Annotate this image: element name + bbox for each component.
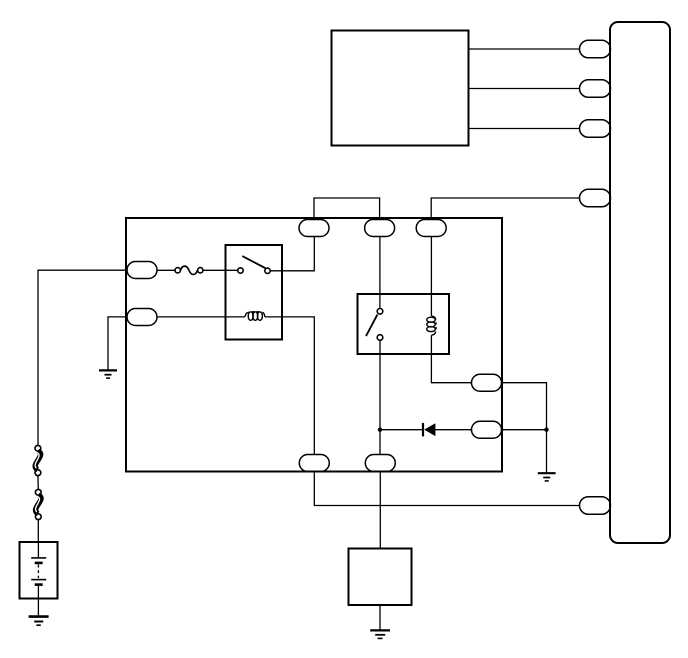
wire T1 down to relay 1 switch: [270, 237, 314, 271]
connector pin 2: [580, 80, 611, 98]
wire module to pin 2: [469, 88, 580, 90]
module box (top): [332, 31, 469, 146]
battery internals: [31, 542, 46, 616]
fuse terminal circle left: [175, 268, 180, 273]
terminal L2: [127, 309, 157, 326]
relay 1 coil: [245, 312, 265, 321]
wire bracket T1 to T2: [314, 198, 380, 220]
diode D1: [423, 423, 435, 437]
wire R1 to ground drop: [502, 383, 547, 473]
terminal T1: [299, 220, 329, 237]
relay 2 contact bottom: [377, 335, 383, 341]
wire L2 to relay 1 coil: [157, 316, 245, 318]
ground (left of block): [99, 370, 117, 378]
connector pin 3: [580, 120, 611, 138]
wire link 2 to battery: [37, 520, 39, 542]
relay 1 contact left: [238, 268, 243, 273]
ground (bottom): [370, 630, 390, 638]
connector pin 4: [580, 189, 611, 207]
wire T2 down to relay 2 switch: [379, 237, 381, 309]
fusible link 2 element: [36, 495, 41, 514]
wire diode cathode side to R2: [435, 429, 471, 431]
junction dot at diode tap: [378, 428, 382, 432]
ground (right of block): [538, 473, 556, 481]
wire B1 to connector pin 5: [314, 472, 579, 506]
junction dot at ground drop: [544, 428, 548, 432]
terminal R1: [472, 374, 502, 391]
fuse element: [180, 266, 197, 274]
wire T3 to connector pin 4: [431, 198, 579, 220]
connector pin 1: [580, 40, 611, 58]
relay 2 switch blade: [366, 315, 377, 337]
wire relay 1 coil to B1: [265, 317, 314, 455]
wire T3 down to relay 2 coil: [430, 237, 432, 316]
relay 2 box: [358, 294, 450, 354]
wire module to pin 3: [469, 128, 580, 130]
relay 1 box: [226, 245, 283, 340]
wire B2 down to ground box: [379, 472, 381, 549]
wire relay 2 switch to B2: [379, 340, 381, 454]
relay 2 coil: [427, 316, 436, 335]
fusible link 1 circle bottom: [35, 470, 41, 476]
wire between fusible links: [37, 476, 39, 490]
wire L2 to ground stub: [108, 317, 127, 370]
wire fuse to relay 1 contact: [203, 269, 238, 271]
wire module to pin 1: [469, 48, 580, 50]
fusible link 1 circle top: [35, 445, 41, 451]
fuse terminal circle right: [198, 268, 203, 273]
wire L1 to battery feed: [38, 270, 127, 445]
terminal B1: [299, 455, 329, 472]
right connector body: [610, 22, 670, 543]
junction block box (center): [126, 218, 502, 472]
wire R2 to ground drop: [502, 429, 547, 431]
wire relay 2 coil to R1: [431, 335, 471, 383]
fusible link 1 element: [35, 451, 40, 470]
relay 2 contact top: [377, 309, 383, 315]
terminal B2: [365, 455, 395, 472]
wire L1 to fuse: [157, 269, 175, 271]
terminal T2: [365, 220, 395, 237]
ground unit box (bottom): [349, 549, 412, 606]
terminal R2: [472, 421, 502, 438]
connector pin 5: [580, 497, 611, 515]
terminal T3: [416, 220, 446, 237]
wire ground box to ground: [379, 605, 381, 630]
wire diode anode side: [380, 429, 423, 431]
relay 1 contact right: [265, 268, 270, 273]
fusible link 2 circle bottom: [35, 514, 41, 520]
fusible link 2 circle top: [35, 489, 41, 495]
battery box: [20, 542, 58, 599]
relay 1 switch blade: [242, 256, 265, 268]
terminal L1: [127, 262, 157, 279]
ground (battery): [29, 617, 49, 626]
